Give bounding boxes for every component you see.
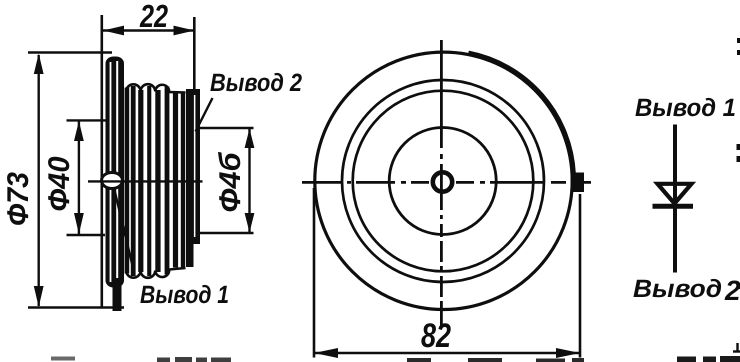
front view inner circle <box>389 128 496 235</box>
bottom cut-off text fragment 4 <box>677 356 740 362</box>
bottom cut-off text fragment 3 <box>407 358 584 362</box>
extension line right of 22 <box>193 17 196 92</box>
dimension F46 top extension line <box>197 127 254 129</box>
svg-text:2: 2 <box>724 275 740 306</box>
ribbed body rib 0 <box>125 88 130 274</box>
right edge fragment e <box>737 283 740 289</box>
dimension 22 line <box>103 29 195 32</box>
flange disc highlight stripe 2 <box>116 61 118 282</box>
dimension F40 bottom extension line <box>67 234 106 236</box>
dimension F40 bottom arrow <box>74 213 84 234</box>
front view outer circle doubled arc top right <box>469 52 575 174</box>
dimension F73 top arrow <box>34 54 44 75</box>
dimension F40 line <box>78 121 80 234</box>
right end plate lower part <box>186 244 194 267</box>
extension line left of 22 (left face line) <box>101 15 104 308</box>
svg-text:22: 22 <box>139 0 168 34</box>
svg-text:Ф40: Ф40 <box>43 156 76 211</box>
right edge corner fragment horizontal <box>733 350 740 352</box>
ribbed body scalloped bottom edge <box>126 268 185 278</box>
dimension F40 top arrow <box>74 121 84 141</box>
front view outer circle <box>315 52 572 309</box>
svg-text:Вывод 2: Вывод 2 <box>210 69 302 97</box>
diode triangle <box>658 184 692 204</box>
front view center ring <box>433 172 452 191</box>
right edge fragment a <box>737 38 740 43</box>
diode cathode bar <box>653 204 694 209</box>
front view circle 3 <box>353 91 534 272</box>
dimension 82 left extension line <box>313 188 316 358</box>
right edge fragment c <box>737 144 740 150</box>
ribbed body rib 5 <box>165 87 170 275</box>
svg-text:82: 82 <box>421 317 451 355</box>
front view circle 2 <box>342 80 544 282</box>
dimension F46 bottom arrow <box>245 213 255 233</box>
dimension 22 left arrow <box>103 26 124 36</box>
centerline of side view <box>88 180 203 182</box>
diode wire <box>673 125 677 273</box>
flange disc (side view) <box>106 57 125 288</box>
ribbed body rib 7 <box>181 93 185 268</box>
dimension 82 right extension line <box>579 194 582 358</box>
leader to Vyvod 1 <box>114 188 134 272</box>
ribbed body scalloped top edge <box>126 84 185 92</box>
terminal tab on right of front view <box>571 173 585 193</box>
dimension F40 top extension line <box>67 119 107 121</box>
right edge corner fragment vertical <box>736 343 738 352</box>
bottom cut-off text fragment 1 <box>51 357 75 361</box>
svg-text:Вывод 1: Вывод 1 <box>635 94 736 122</box>
ribbed body rib 4 <box>155 90 160 272</box>
right edge fragment b <box>737 50 740 55</box>
dimension F46 line <box>248 129 250 233</box>
dimension 82 line <box>314 352 580 355</box>
svg-text:Ф4б: Ф4б <box>214 151 247 212</box>
flange disc highlight stripe <box>110 62 112 282</box>
right end plate <box>186 89 200 244</box>
right edge fragment d <box>737 156 740 162</box>
bottom cut-off text fragment 2 <box>157 357 231 362</box>
dimension F73 bottom arrow <box>34 286 44 307</box>
dimension 22 right arrow <box>174 26 195 36</box>
leader to Vyvod 2 <box>196 98 213 132</box>
ribbed body rib 1 <box>131 86 136 276</box>
ribbed body rib 6 <box>173 93 178 268</box>
dimension 82 right arrow <box>556 348 580 358</box>
horizontal centerline of front view <box>302 181 591 184</box>
dimension 82 left arrow <box>314 348 338 358</box>
dimension F73 top extension line <box>28 51 112 54</box>
dimension F46 bottom extension line <box>197 232 254 234</box>
hub ellipse (stud end) <box>102 173 123 189</box>
flange disc lower stem <box>113 278 122 311</box>
ribbed body rib 3 <box>147 86 151 276</box>
svg-text:Вывод: Вывод <box>633 275 722 303</box>
right end plate highlight stripe <box>194 95 196 237</box>
svg-text:Вывод 1: Вывод 1 <box>140 281 229 309</box>
svg-text:Ф73: Ф73 <box>2 172 35 226</box>
vertical centerline of front view <box>440 40 443 326</box>
dimension F73 bottom extension line <box>28 306 124 309</box>
dimension F73 line <box>38 55 40 306</box>
ribbed body rib 2 <box>138 90 143 272</box>
dimension F46 top arrow <box>245 129 255 149</box>
